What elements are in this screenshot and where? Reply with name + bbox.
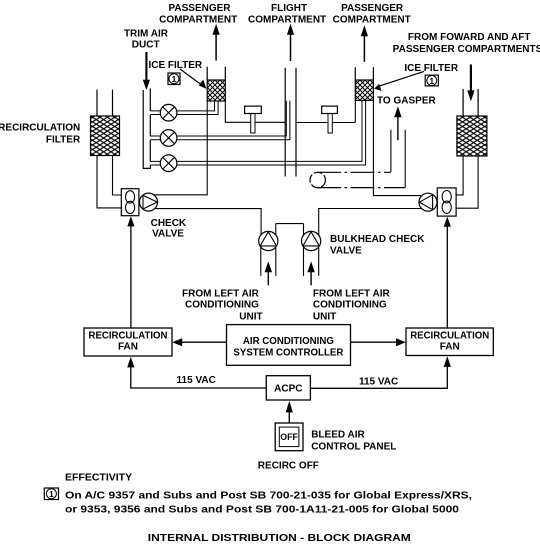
- wire bulkhead left pipe right line: [275, 224, 277, 276]
- svg-text:BULKHEAD CHECK: BULKHEAD CHECK: [330, 234, 425, 245]
- flag note 1 left: [168, 73, 180, 85]
- svg-text:or 9353, 9356 and Subs and Pos: or 9353, 9356 and Subs and Post SB 700-1…: [65, 505, 460, 516]
- label FROM FOWARD AND AFT PASSENGER COMPARTMENTS: [393, 32, 540, 55]
- wire gasper duct left line: [390, 130, 392, 172]
- leader arrow ice filter right: [374, 71, 424, 91]
- wire ACPC to right fan 115 VAC with arrow: [310, 356, 451, 388]
- recirculation filter left hatched box: [91, 116, 120, 156]
- svg-text:COMPARTMENT: COMPARTMENT: [159, 15, 237, 26]
- valve 3 trim air: [160, 155, 177, 172]
- svg-text:ICE FILTER: ICE FILTER: [148, 60, 202, 71]
- svg-text:115 VAC: 115 VAC: [177, 375, 216, 386]
- recirculation fan box left: [84, 328, 172, 356]
- temperature sensor right body: [322, 106, 338, 133]
- wire right recirc filter outlet left line to fan: [456, 156, 463, 195]
- leader arrow ice filter left: [180, 69, 206, 89]
- svg-text:VALVE: VALVE: [330, 246, 362, 257]
- svg-text:AIR CONDITIONING: AIR CONDITIONING: [243, 336, 334, 347]
- svg-text:COMPARTMENT: COMPARTMENT: [248, 15, 326, 26]
- svg-text:RECIRCULATION: RECIRCULATION: [410, 331, 489, 342]
- arrow up from left recirc fan box to fan symbol: [127, 216, 134, 328]
- label BULKHEAD CHECK VALVE: [330, 234, 425, 257]
- svg-text:CONDITIONING: CONDITIONING: [313, 300, 387, 311]
- wire left passenger duct left line upper: [206, 67, 208, 80]
- flag note 1 right: [425, 75, 438, 86]
- svg-text:PASSENGER: PASSENGER: [168, 3, 231, 14]
- label BLEED AIR CONTROL PANEL: [311, 430, 396, 453]
- wire left passenger duct right line upper: [224, 67, 226, 80]
- svg-text:UNIT: UNIT: [313, 312, 336, 323]
- svg-text:PASSENGER COMPARTMENTS: PASSENGER COMPARTMENTS: [393, 44, 540, 55]
- wire flight duct left line: [284, 68, 286, 177]
- label FROM LEFT AIR CONDITIONING UNIT left: [182, 289, 263, 323]
- wire left recirc filter outlet left line to fan: [97, 156, 121, 208]
- svg-text:INTERNAL DISTRIBUTION - BLOCK: INTERNAL DISTRIBUTION - BLOCK DIAGRAM: [148, 532, 411, 544]
- svg-text:VALVE: VALVE: [152, 229, 184, 240]
- bulkhead check valve right: [302, 231, 321, 250]
- valve 1 trim air: [160, 104, 177, 121]
- wire right passenger duct left line upper: [354, 67, 356, 80]
- arrow up from right recirc fan box to fan symbol: [444, 217, 451, 328]
- label FLIGHT COMPARTMENT: [248, 3, 326, 26]
- wire left passenger duct left line lower to check valve: [154, 101, 207, 195]
- svg-text:PASSENGER: PASSENGER: [341, 3, 404, 14]
- valve 2 trim air: [160, 130, 177, 147]
- svg-text:OFF: OFF: [280, 432, 298, 442]
- wire bulkhead right pipe left line: [303, 224, 305, 276]
- svg-text:TRIM AIR: TRIM AIR: [124, 28, 169, 39]
- svg-text:1: 1: [172, 74, 177, 84]
- ice filter right hatched box: [355, 80, 373, 100]
- label PASSENGER COMPARTMENT right: [333, 3, 411, 26]
- svg-text:FAN: FAN: [440, 342, 460, 353]
- svg-text:1: 1: [429, 76, 434, 86]
- check valve left: [140, 193, 158, 211]
- wire flight duct right line: [295, 68, 297, 177]
- svg-text:EFFECTIVITY: EFFECTIVITY: [65, 471, 132, 483]
- recirculation filter right hatched box: [457, 116, 487, 156]
- svg-text:ACPC: ACPC: [274, 384, 302, 395]
- svg-text:FILTER: FILTER: [46, 135, 81, 146]
- flag note 1 bottom: [44, 488, 58, 500]
- svg-text:FLIGHT: FLIGHT: [271, 3, 307, 14]
- ACPC box: [266, 376, 310, 400]
- phantom duct top dash-dot line: [317, 171, 391, 173]
- svg-text:1: 1: [49, 489, 54, 499]
- svg-text:UNIT: UNIT: [239, 312, 262, 323]
- svg-text:RECIRC OFF: RECIRC OFF: [258, 461, 319, 472]
- wire left recirc filter inlet lines: [97, 90, 113, 116]
- arrow up to passenger compartment right: [361, 25, 368, 62]
- svg-text:On A/C 9357 and Subs and Post: On A/C 9357 and Subs and Post SB 700-21-…: [65, 491, 472, 502]
- arrow down trim air duct leader: [143, 52, 150, 90]
- svg-text:RECIRCULATION: RECIRCULATION: [0, 123, 80, 134]
- phantom future duct circle: [310, 172, 325, 187]
- svg-text:FROM LEFT AIR: FROM LEFT AIR: [313, 289, 391, 300]
- arrow up into left bulkhead valve: [265, 261, 272, 285]
- wire bulkhead bridge: [276, 223, 304, 225]
- wire flight duct cross pipe right: [296, 122, 355, 124]
- svg-text:COMPARTMENT: COMPARTMENT: [333, 15, 411, 26]
- svg-text:CONDITIONING: CONDITIONING: [185, 300, 259, 311]
- svg-text:ICE FILTER: ICE FILTER: [404, 63, 458, 74]
- wire right passenger duct right line lower to right check valve: [373, 100, 421, 195]
- wire gasper duct right line: [404, 130, 406, 188]
- arrow bleed air control panel to ACPC: [286, 401, 293, 423]
- svg-text:TO GASPER: TO GASPER: [377, 96, 436, 107]
- wire right passenger duct right line upper: [372, 67, 374, 80]
- wire left recirc filter outlet right line to fan: [113, 156, 122, 196]
- svg-text:FROM LEFT AIR: FROM LEFT AIR: [182, 289, 260, 300]
- wire right passenger duct left line lower: [354, 100, 356, 122]
- bulkhead check valve left: [259, 231, 278, 250]
- svg-text:DUCT: DUCT: [132, 39, 160, 50]
- label PASSENGER COMPARTMENT left: [159, 3, 237, 26]
- bleed air control panel OFF switch: [275, 423, 303, 451]
- svg-text:FROM FOWARD AND AFT: FROM FOWARD AND AFT: [408, 32, 531, 43]
- wire valve 1 pipe trim duct to left ice filter: [150, 101, 218, 115]
- label TRIM AIR DUCT: [124, 28, 169, 50]
- wire valve 2 pipe trim duct to flight duct: [150, 101, 290, 140]
- wire ACPC to left fan 115 VAC with arrow: [127, 357, 266, 388]
- phantom duct bottom dash-dot line: [317, 187, 405, 189]
- svg-text:SYSTEM CONTROLLER: SYSTEM CONTROLLER: [233, 347, 344, 358]
- wire bulkhead left pipe left line lower: [260, 247, 262, 276]
- label RECIRCULATION FILTER: [0, 123, 81, 146]
- wire trim air duct left line: [143, 90, 150, 168]
- ice filter left hatched box: [207, 80, 225, 101]
- arrow up into right bulkhead valve: [307, 261, 314, 285]
- svg-text:115 VAC: 115 VAC: [359, 376, 398, 387]
- label FROM LEFT AIR CONDITIONING UNIT right: [313, 289, 391, 323]
- recirculation fan box right: [406, 328, 493, 356]
- air conditioning system controller box: [227, 325, 351, 366]
- label CHECK VALVE: [151, 218, 187, 240]
- arrow up to gasper: [394, 106, 401, 140]
- wire right recirc filter inlet lines: [463, 89, 478, 116]
- svg-text:CHECK: CHECK: [151, 218, 187, 229]
- svg-text:BLEED AIR: BLEED AIR: [311, 430, 365, 441]
- recirculation fan symbol left: [121, 189, 139, 216]
- svg-text:RECIRCULATION: RECIRCULATION: [89, 331, 168, 342]
- wire check valve right lower inlet from bulkhead valve: [319, 209, 421, 236]
- wire bulkhead right pipe right line lower: [318, 247, 320, 276]
- wire left passenger duct right line lower to flight duct: [225, 101, 285, 122]
- arrow up to passenger compartment left: [213, 24, 220, 61]
- arrow controller to left fan: [172, 338, 226, 346]
- temperature sensor left cross line already drawn; sensor body left: [245, 106, 262, 133]
- svg-text:FAN: FAN: [118, 342, 138, 353]
- check valve right: [419, 193, 437, 211]
- wire valve 3 pipe trim duct to right ice filter: [150, 100, 365, 165]
- wire trim air duct right line segments: [149, 89, 151, 162]
- arrow controller to right fan: [350, 338, 406, 346]
- svg-text:CONTROL PANEL: CONTROL PANEL: [311, 441, 396, 452]
- recirculation fan symbol right: [437, 188, 456, 216]
- wire right recirc filter outlet right line to fan: [456, 156, 478, 208]
- wire check valve left lower outlet to bulkhead valve: [155, 209, 261, 235]
- arrow down from forward and aft passenger compartments: [467, 65, 474, 102]
- arrow up to flight compartment: [287, 24, 294, 61]
